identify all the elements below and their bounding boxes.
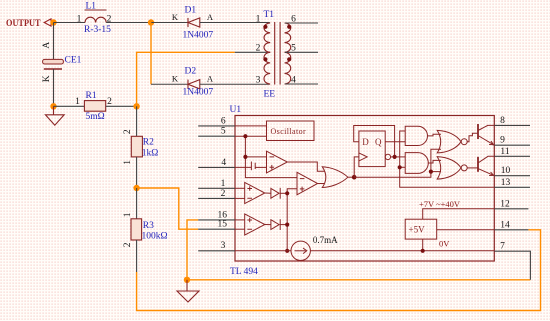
wire D flip-flop feedback loop — [354, 126, 395, 157]
wire output-control pin13 line — [400, 131, 495, 187]
wire Q to AND1 — [385, 141, 405, 143]
wire CT to DTC inverting input — [245, 156, 266, 158]
wire feedback bus — [287, 189, 297, 251]
svg-text:13: 13 — [501, 178, 511, 188]
op-amp U1 border TL494 — [235, 116, 494, 262]
wire U1 pin10 stub — [494, 175, 530, 177]
ground symbol left — [45, 106, 64, 125]
transistor Q2 — [467, 156, 494, 175]
wire node B to R1 pin1 — [54, 105, 85, 107]
svg-text:K: K — [42, 75, 52, 82]
wire U1 pin1 stub — [198, 187, 235, 189]
wire L1 pin2 to node A — [106, 22, 151, 24]
wire U1 pin4 stub — [198, 166, 235, 168]
wire CE1 cathode to ground node — [53, 69, 55, 106]
wire CE1 anode from OUTPUT node — [53, 23, 55, 60]
svg-text:15: 15 — [218, 220, 228, 230]
svg-text:CE1: CE1 — [65, 55, 82, 65]
wire R3 pin2 down — [136, 240, 138, 272]
wire U1 pin14 stub — [494, 229, 528, 231]
wire EA1 diode to feedback bus — [280, 192, 287, 194]
node OR output junction — [352, 175, 357, 180]
inductor L1 — [85, 1, 107, 22]
svg-text:2: 2 — [221, 189, 226, 199]
polarity dot T1 winding 2-3 — [263, 57, 267, 61]
inverted output bubble of D-FF — [385, 154, 390, 159]
svg-text:TL 494: TL 494 — [230, 267, 258, 277]
wire output-control to AND2 — [400, 166, 406, 168]
svg-text:R1: R1 — [86, 91, 97, 101]
wire node D to R3 pin1 — [136, 188, 138, 219]
svg-text:EE: EE — [264, 90, 276, 100]
node CT junction on pin5 — [243, 134, 247, 138]
svg-text:6: 6 — [221, 116, 226, 126]
svg-text:1N4007: 1N4007 — [183, 87, 214, 97]
AND gate 2 — [405, 153, 428, 174]
svg-text:+7V ~+40V: +7V ~+40V — [419, 199, 461, 209]
resistor R2 — [131, 136, 142, 157]
svg-text:2: 2 — [123, 242, 133, 247]
wire OUTPUT to L1 pin1 — [54, 22, 86, 24]
wire T1 pin6 stub — [285, 22, 318, 24]
wire pin6 to oscillator — [235, 125, 267, 127]
svg-text:5mΩ: 5mΩ — [86, 112, 105, 122]
wire pin2 to EA1 — [235, 197, 245, 199]
svg-text:Q: Q — [375, 137, 382, 147]
svg-text:D: D — [362, 137, 369, 147]
wire pin4 to offset battery — [235, 166, 251, 168]
wire EA2 to diode — [265, 224, 271, 226]
wire PWM signal to NOR inputs — [354, 149, 441, 177]
op-amp dead-time comparator — [267, 151, 288, 173]
wire U1 pin8 stub — [494, 124, 530, 126]
polarity marks error amplifier 1 — [247, 186, 252, 198]
wire OR output — [348, 176, 354, 178]
NOR gate 2 — [437, 157, 467, 180]
diode EA2 output — [271, 219, 280, 230]
oscillator block of U1 — [267, 121, 315, 141]
wire D1 anode to T1 pin1 — [200, 22, 270, 24]
node OUTPUT junction — [50, 19, 56, 25]
svg-text:12: 12 — [500, 199, 510, 209]
svg-text:K: K — [172, 74, 179, 84]
svg-text:3: 3 — [221, 241, 226, 251]
wire T1 pin5 stub — [285, 51, 318, 53]
wire pin3 line — [235, 250, 291, 252]
diode EA1 output — [271, 188, 280, 199]
svg-text:4: 4 — [221, 158, 226, 168]
wire T1 pin2 to output node (orange) — [137, 52, 235, 106]
wire U1 pin13 stub — [494, 186, 530, 188]
AND gate 1 — [405, 126, 427, 145]
wire regulator output to pin14 — [437, 229, 495, 231]
wire U1 pin16 to ground node (orange) — [187, 220, 198, 280]
node CT tap junction — [243, 155, 247, 159]
svg-text:7: 7 — [500, 242, 505, 252]
wire pin12 VCC to regulator — [423, 209, 495, 219]
transformer T1 primary windings — [264, 23, 270, 84]
svg-text:1: 1 — [77, 14, 82, 24]
svg-text:U1: U1 — [230, 105, 242, 115]
wire node C to R2 pin2 — [136, 106, 138, 136]
svg-text:100kΩ: 100kΩ — [142, 232, 168, 242]
transformer T1 core — [275, 22, 280, 85]
svg-text:1: 1 — [256, 14, 261, 24]
svg-text:1: 1 — [221, 179, 226, 189]
wire R3 bottom to Vref rail (orange) — [137, 230, 541, 311]
svg-text:1N4007: 1N4007 — [183, 31, 214, 41]
node B junction at R1 pin1 — [50, 103, 56, 109]
svg-text:0V: 0V — [439, 239, 450, 249]
diode D2 — [188, 80, 200, 89]
wire PWM output to OR gate — [318, 183, 325, 185]
svg-text:8: 8 — [500, 116, 505, 126]
wire pin15 to EA2 — [235, 228, 245, 230]
svg-text:R3: R3 — [143, 221, 154, 231]
node GND junction — [184, 277, 190, 283]
wire U1 pin12 stub — [494, 208, 528, 210]
OR gate G1 — [322, 167, 348, 188]
ground symbol bottom — [177, 280, 199, 302]
wire U1 pin7 stub to ground rail — [494, 251, 530, 280]
svg-text:D1: D1 — [185, 5, 197, 15]
svg-text:K: K — [172, 12, 179, 22]
polarity dot T1 winding 1-2 — [263, 25, 267, 29]
wire node A to D1 cathode — [151, 22, 188, 24]
svg-text:2: 2 — [107, 97, 112, 107]
svg-text:1: 1 — [123, 160, 133, 165]
wire node D to U1 pin15 (orange) — [137, 188, 199, 229]
svg-text:A: A — [207, 12, 214, 22]
wire Qbar to AND2 — [391, 156, 406, 158]
wire OR output to clock — [354, 157, 359, 177]
polarity marks PWM comparator — [300, 179, 305, 192]
wire PWM signal to NOR2 input — [431, 171, 441, 173]
wire EA1 to diode — [265, 192, 271, 194]
wire node A down to D2 branch — [150, 23, 152, 85]
svg-text:10: 10 — [501, 166, 511, 176]
wire R1 pin2 to node C — [106, 105, 137, 107]
wire U1 pin15 stub — [198, 228, 235, 230]
wire pin5 to oscillator — [235, 135, 267, 137]
current source 0.7mA — [291, 241, 310, 260]
wire U1 pin5 stub — [198, 135, 235, 137]
wire D2 anode to T1 pin3 — [200, 83, 270, 85]
svg-text:OUTPUT: OUTPUT — [6, 19, 41, 29]
svg-text:11: 11 — [500, 147, 509, 157]
flip-flop U1 internal D-FF — [359, 131, 385, 167]
wire U1 pin6 stub — [198, 125, 235, 127]
wire CT bus — [245, 136, 297, 177]
svg-text:14: 14 — [500, 220, 510, 230]
wire ground rail (orange) — [187, 279, 530, 281]
wire AND2 output to NOR2 — [428, 160, 441, 163]
wire regulator ground — [422, 239, 424, 251]
port OUTPUT symbol — [44, 19, 51, 26]
svg-text:+5V: +5V — [409, 225, 426, 235]
wire battery to DTC non-inverting input — [255, 166, 266, 168]
polarity dot T1 winding 6-5 — [287, 25, 291, 29]
wire pin16 to EA2 — [235, 219, 245, 221]
svg-text:9: 9 — [500, 136, 505, 146]
node output-control junction — [398, 165, 402, 169]
svg-text:T1: T1 — [264, 10, 275, 20]
wire R2 pin1 to node D — [136, 157, 138, 188]
wire AND1 output to NOR1 — [428, 134, 442, 136]
op-amp PWM comparator — [297, 172, 318, 195]
wire DTC output to OR gate — [287, 162, 324, 171]
polarity marks dead-time comparator — [270, 157, 275, 170]
wire D2 cathode from node A branch — [151, 83, 188, 85]
resistor R1 — [84, 101, 105, 112]
svg-text:R-3-15: R-3-15 — [84, 25, 111, 35]
diode D1 — [188, 18, 200, 27]
node regulator ground junction — [421, 249, 425, 253]
node C junction — [133, 103, 139, 109]
transistor Q1 — [467, 124, 494, 145]
wire T1 pin2 stub — [235, 51, 270, 53]
resistor R3 — [131, 219, 142, 240]
node feedback EA1 junction — [285, 191, 289, 195]
svg-text:A: A — [42, 42, 52, 49]
wire U1 pin3 stub — [198, 250, 235, 252]
wire 0V internal line — [310, 250, 494, 252]
op-amp error amplifier 1 — [245, 182, 265, 203]
svg-text:Oscillator: Oscillator — [271, 127, 307, 136]
capacitor CE1 — [43, 59, 64, 69]
node D junction R2-R3 — [133, 185, 139, 191]
op-amp error amplifier 2 — [245, 214, 265, 235]
wire pin1 to EA1 — [235, 187, 245, 189]
node feedback pin3 junction — [285, 249, 289, 253]
node NOR2 input junction — [429, 170, 433, 174]
svg-text:2: 2 — [123, 129, 133, 134]
svg-text:A: A — [207, 74, 214, 84]
svg-text:D2: D2 — [185, 67, 197, 77]
wire T1 pin4 stub — [285, 83, 318, 85]
wire U1 pin11 stub — [494, 155, 530, 157]
polarity dot T1 winding 5-4 — [287, 57, 291, 61]
svg-text:3: 3 — [256, 75, 261, 85]
wire EA2 diode to feedback bus — [280, 224, 287, 226]
battery offset source — [251, 162, 255, 171]
voltage regulator +5V block — [405, 219, 437, 239]
node A junction — [148, 19, 154, 25]
wire U1 pin16 stub — [198, 219, 235, 221]
NOR gate 1 — [437, 130, 467, 153]
svg-text:2: 2 — [256, 44, 261, 54]
svg-text:0.7mA: 0.7mA — [313, 235, 338, 245]
svg-text:5: 5 — [221, 127, 226, 137]
wire U1 pin9 stub — [494, 144, 530, 146]
svg-text:R2: R2 — [143, 137, 154, 147]
svg-text:1: 1 — [75, 97, 80, 107]
polarity marks error amplifier 2 — [247, 218, 252, 230]
node feedback EA2 junction — [285, 223, 289, 227]
clock input mark of D-FF — [359, 153, 367, 161]
svg-text:1kΩ: 1kΩ — [142, 148, 159, 158]
svg-text:1: 1 — [123, 212, 133, 217]
wire U1 pin2 stub — [198, 197, 235, 199]
node Qbar junction — [393, 155, 397, 159]
transformer T1 secondary windings — [285, 23, 291, 84]
